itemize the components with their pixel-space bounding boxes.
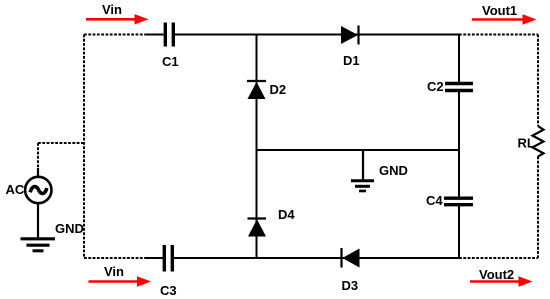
svg-text:D3: D3 <box>342 278 359 293</box>
svg-text:GND: GND <box>55 221 84 236</box>
wire right vertical segment 3 <box>458 205 460 258</box>
ground middle symbol <box>351 181 374 191</box>
wire dashed bottom-left <box>84 257 146 259</box>
svg-text:AC: AC <box>6 182 25 197</box>
wire left-center vertical <box>256 35 258 259</box>
capacitor C2 <box>445 84 473 91</box>
wire dashed right vertical lower <box>537 157 539 259</box>
diode D1 <box>341 26 359 45</box>
wire dashed top-right <box>459 34 538 36</box>
wire bottom rail left of C3 <box>145 257 164 259</box>
Vin bottom arrow <box>89 276 152 286</box>
svg-text:Vin: Vin <box>102 2 122 17</box>
Vout2 arrow <box>470 276 533 286</box>
svg-text:Vout1: Vout1 <box>482 3 517 18</box>
wire right vertical segment 1 <box>458 35 460 84</box>
Vout1 arrow <box>472 14 537 24</box>
wire dashed AC jog horizontal <box>38 142 84 144</box>
ground left symbol <box>21 239 56 251</box>
svg-text:Vout2: Vout2 <box>479 267 514 282</box>
capacitor C1 <box>165 23 173 47</box>
wire right vertical segment 2 <box>458 91 460 198</box>
svg-text:C4: C4 <box>426 193 443 208</box>
wire dashed left vertical bus <box>83 35 85 259</box>
AC source top lead <box>37 168 39 178</box>
svg-text:GND: GND <box>379 163 408 178</box>
Vin top arrow <box>86 14 149 24</box>
wire dashed top-left <box>84 34 146 36</box>
svg-text:C1: C1 <box>162 54 179 69</box>
wire middle rail <box>257 149 460 151</box>
diode D4 <box>248 219 267 237</box>
svg-text:D1: D1 <box>343 53 360 68</box>
AC source U1 <box>25 177 51 203</box>
svg-text:RL: RL <box>518 136 535 151</box>
wire dashed bottom-right <box>459 257 538 259</box>
diode D3 <box>342 248 360 268</box>
svg-text:C2: C2 <box>427 79 444 94</box>
diode D2 <box>247 81 266 99</box>
wire top rail <box>175 34 459 36</box>
svg-text:D2: D2 <box>270 82 287 97</box>
ground middle stem <box>362 150 364 180</box>
wire dashed AC jog vertical <box>37 143 39 170</box>
AC source bottom lead <box>37 202 39 238</box>
capacitor C4 <box>444 198 473 205</box>
wire bottom rail <box>174 257 459 259</box>
svg-text:C3: C3 <box>160 283 177 298</box>
svg-text:Vin: Vin <box>104 264 124 279</box>
wire dashed right vertical upper <box>537 35 539 127</box>
capacitor C3 <box>164 245 172 272</box>
wire top rail left of C1 <box>145 34 164 36</box>
resistor RL <box>533 126 544 157</box>
svg-text:D4: D4 <box>278 207 295 222</box>
